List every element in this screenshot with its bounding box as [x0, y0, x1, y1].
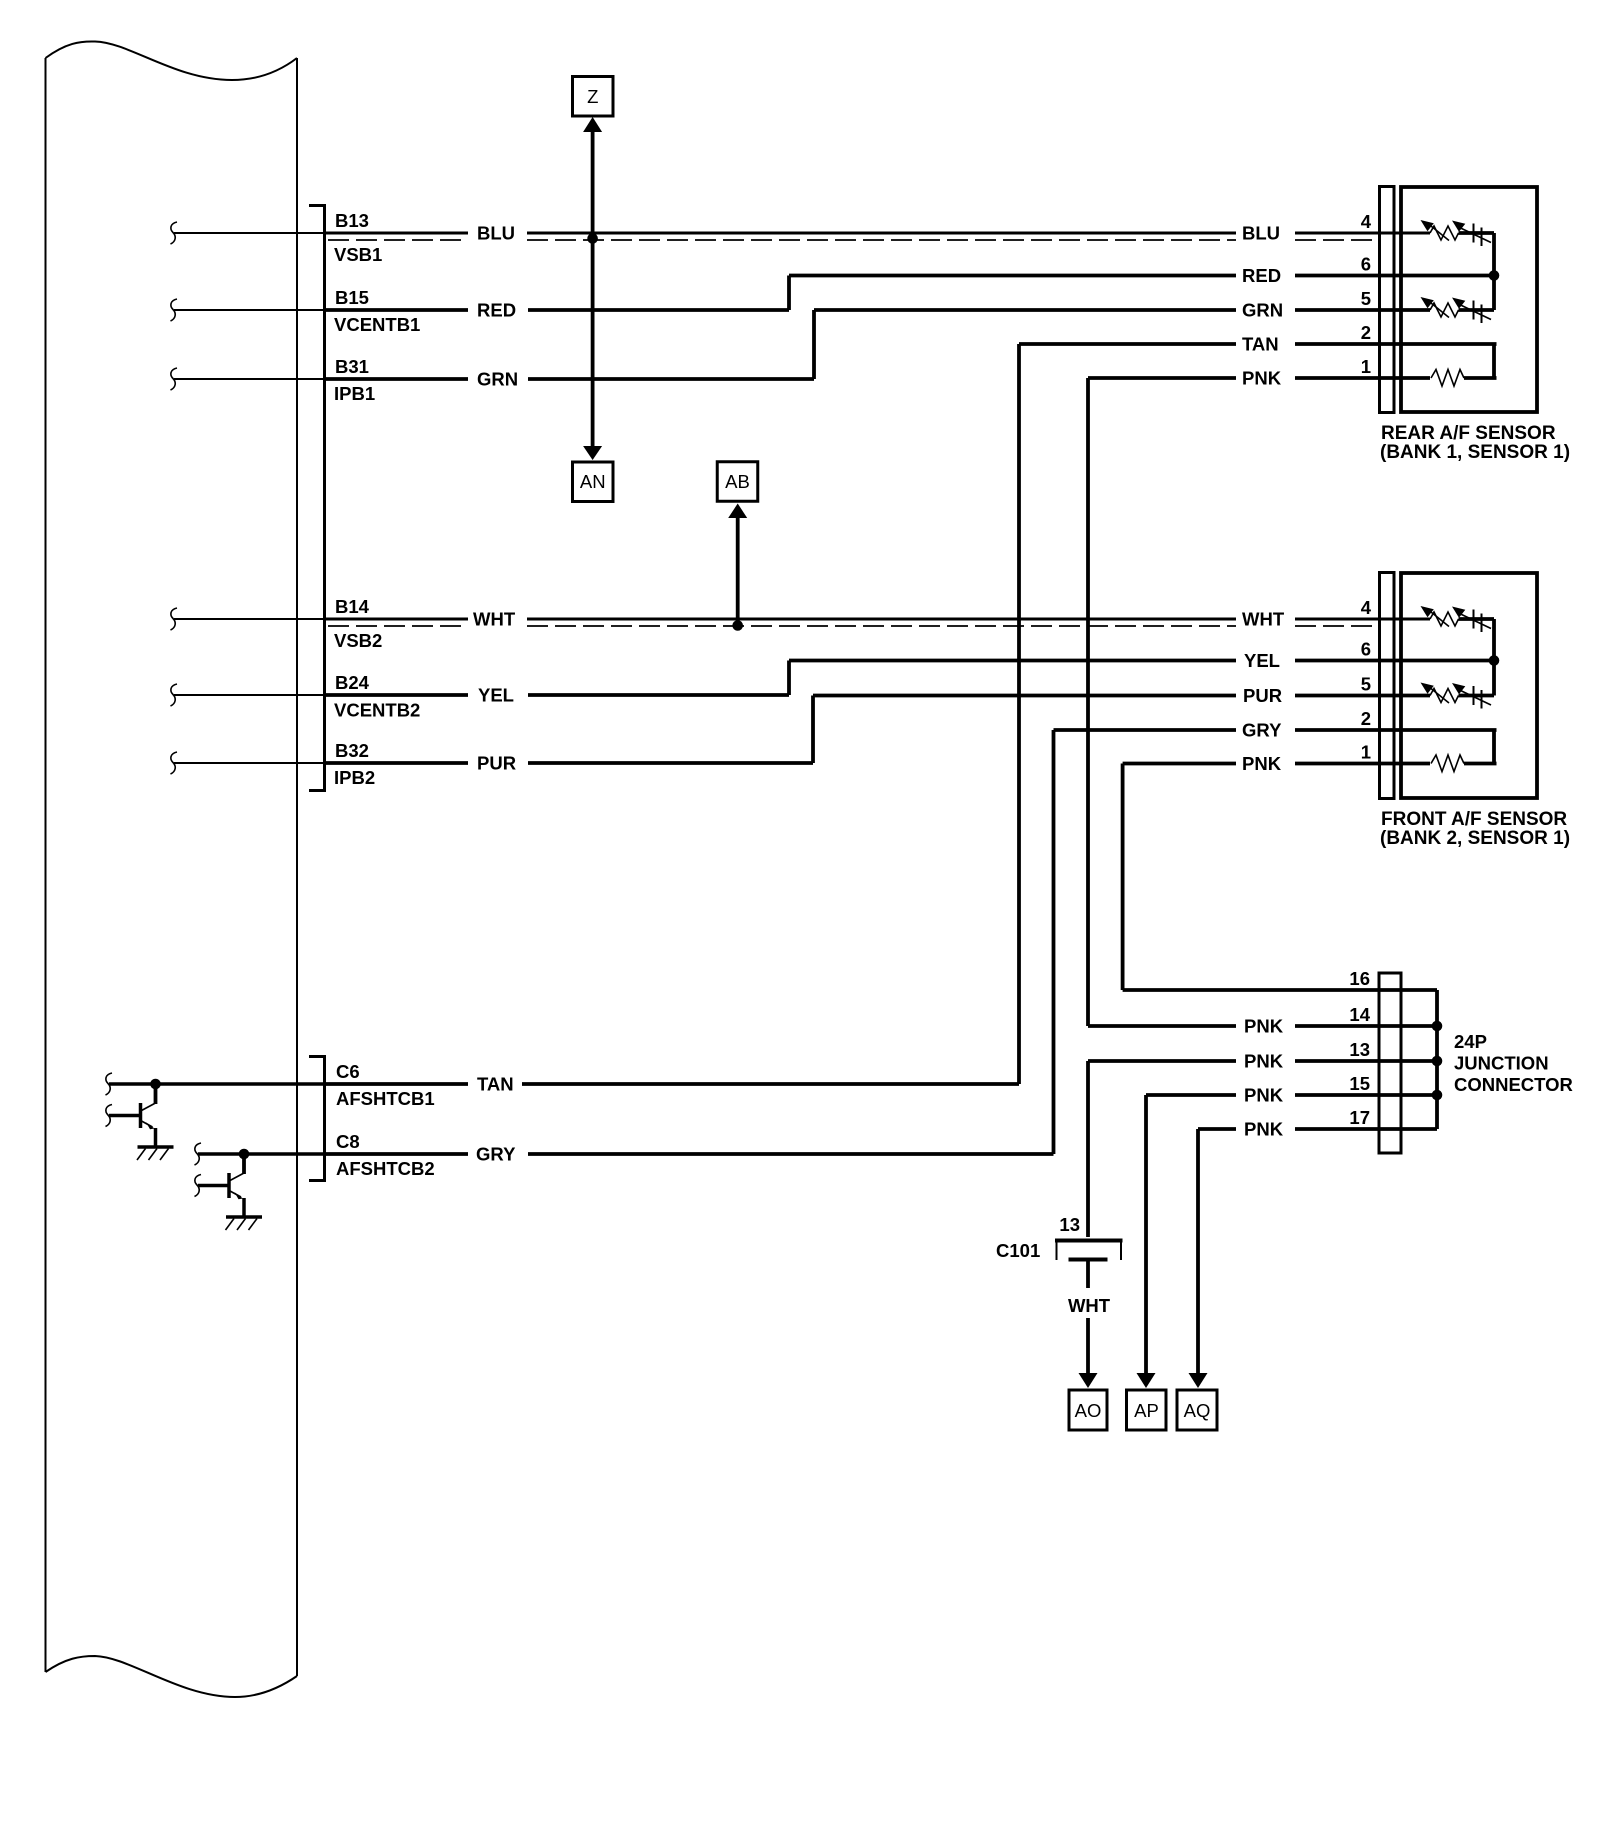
svg-text:PNK: PNK [1242, 368, 1282, 389]
svg-text:JUNCTION: JUNCTION [1454, 1053, 1549, 1074]
svg-text:15: 15 [1349, 1073, 1370, 1094]
svg-text:(BANK 2, SENSOR 1): (BANK 2, SENSOR 1) [1380, 828, 1570, 849]
svg-text:BLU: BLU [477, 223, 515, 244]
svg-text:C6: C6 [336, 1061, 360, 1082]
svg-text:WHT: WHT [473, 609, 516, 630]
svg-text:GRN: GRN [477, 369, 518, 390]
svg-text:4: 4 [1361, 211, 1372, 232]
svg-text:YEL: YEL [478, 685, 514, 706]
svg-text:IPB2: IPB2 [334, 767, 375, 788]
svg-text:24P: 24P [1454, 1031, 1487, 1052]
svg-text:PNK: PNK [1244, 1085, 1284, 1106]
svg-text:GRY: GRY [476, 1144, 516, 1165]
svg-text:AFSHTCB2: AFSHTCB2 [336, 1158, 435, 1179]
svg-text:VCENTB1: VCENTB1 [334, 314, 420, 335]
svg-text:13: 13 [1059, 1214, 1080, 1235]
svg-text:PNK: PNK [1242, 753, 1282, 774]
svg-text:B14: B14 [335, 596, 370, 617]
svg-text:AN: AN [580, 471, 606, 492]
svg-text:1: 1 [1361, 742, 1371, 763]
svg-text:B13: B13 [335, 210, 369, 231]
svg-text:IPB1: IPB1 [334, 383, 375, 404]
svg-text:PNK: PNK [1244, 1119, 1284, 1140]
svg-text:VSB1: VSB1 [334, 244, 382, 265]
svg-text:6: 6 [1361, 639, 1371, 660]
svg-text:AO: AO [1075, 1400, 1102, 1421]
svg-text:GRY: GRY [1242, 720, 1282, 741]
svg-text:REAR A/F SENSOR: REAR A/F SENSOR [1381, 423, 1556, 444]
svg-text:14: 14 [1349, 1004, 1370, 1025]
svg-text:FRONT A/F SENSOR: FRONT A/F SENSOR [1381, 809, 1567, 830]
svg-text:6: 6 [1361, 254, 1371, 275]
svg-text:RED: RED [1242, 265, 1281, 286]
svg-text:VSB2: VSB2 [334, 630, 382, 651]
svg-text:BLU: BLU [1242, 223, 1280, 244]
svg-text:WHT: WHT [1242, 609, 1285, 630]
svg-text:TAN: TAN [1242, 334, 1279, 355]
svg-text:1: 1 [1361, 356, 1371, 377]
svg-text:GRN: GRN [1242, 300, 1283, 321]
svg-text:WHT: WHT [1068, 1295, 1111, 1316]
svg-text:B31: B31 [335, 356, 369, 377]
svg-text:RED: RED [477, 300, 516, 321]
svg-text:VCENTB2: VCENTB2 [334, 700, 420, 721]
svg-text:AFSHTCB1: AFSHTCB1 [336, 1088, 435, 1109]
svg-text:5: 5 [1361, 288, 1371, 309]
svg-text:B15: B15 [335, 287, 369, 308]
svg-text:16: 16 [1349, 968, 1370, 989]
svg-text:YEL: YEL [1244, 650, 1280, 671]
svg-text:PNK: PNK [1244, 1051, 1284, 1072]
svg-text:AP: AP [1134, 1400, 1159, 1421]
svg-text:PNK: PNK [1244, 1016, 1284, 1037]
svg-text:Z: Z [587, 86, 598, 107]
svg-text:(BANK 1, SENSOR 1): (BANK 1, SENSOR 1) [1380, 442, 1570, 463]
svg-text:C8: C8 [336, 1131, 360, 1152]
svg-text:AB: AB [725, 471, 750, 492]
svg-text:C101: C101 [996, 1240, 1040, 1261]
svg-text:PUR: PUR [477, 753, 516, 774]
svg-text:AQ: AQ [1184, 1400, 1211, 1421]
svg-text:B32: B32 [335, 740, 369, 761]
svg-text:2: 2 [1361, 708, 1371, 729]
svg-text:2: 2 [1361, 322, 1371, 343]
svg-text:17: 17 [1349, 1107, 1370, 1128]
svg-text:TAN: TAN [477, 1074, 514, 1095]
svg-text:CONNECTOR: CONNECTOR [1454, 1074, 1573, 1095]
svg-text:B24: B24 [335, 672, 370, 693]
svg-text:4: 4 [1361, 597, 1372, 618]
svg-text:PUR: PUR [1243, 685, 1282, 706]
svg-text:5: 5 [1361, 674, 1371, 695]
svg-text:13: 13 [1349, 1039, 1370, 1060]
